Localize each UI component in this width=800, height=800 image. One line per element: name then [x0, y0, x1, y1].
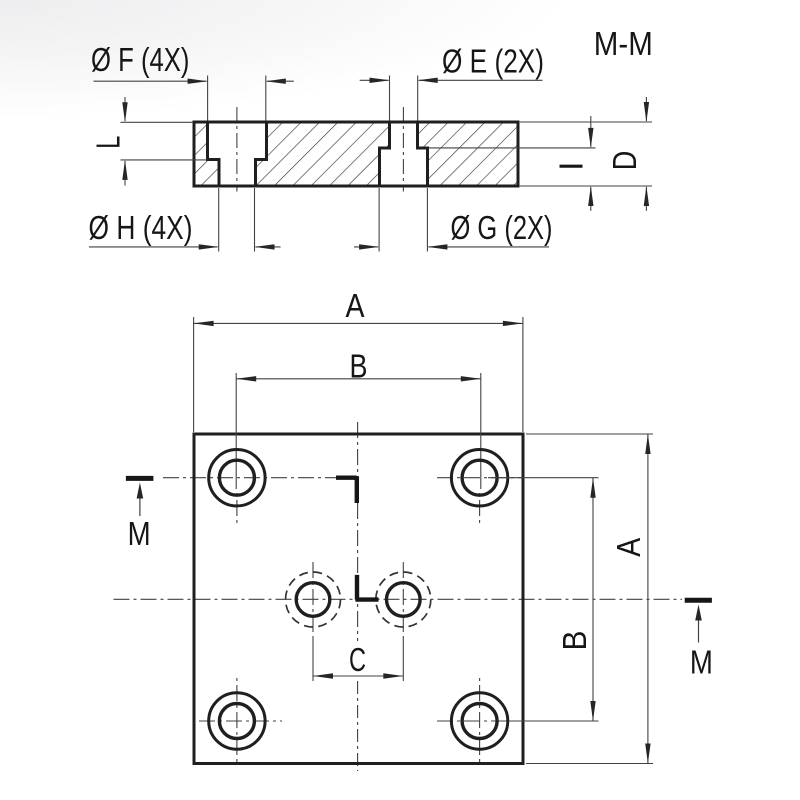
dimension B right	[556, 478, 596, 721]
extension line counterbore depth I	[429, 147, 596, 149]
wire: vertical centerlines of corner holes (lower part)	[237, 493, 480, 762]
extension lines dimension A top	[194, 317, 523, 432]
svg-text:B: B	[556, 631, 593, 651]
dimension dia H (4X)	[89, 209, 281, 250]
counterbore circle upper-right hole	[451, 450, 507, 506]
wire: centerline lower-left hole	[199, 720, 282, 722]
plate outline (top view)	[194, 434, 523, 764]
dimension A right	[610, 434, 651, 764]
counterbore circle lower-left hole	[209, 693, 265, 749]
svg-text:Ø E (2X): Ø E (2X)	[442, 43, 544, 80]
svg-text:I: I	[552, 162, 589, 171]
extension lines plate top/bottom right side	[520, 122, 652, 186]
extension lines dia E	[390, 76, 418, 121]
extension lines dimension C	[313, 637, 403, 681]
extension lines dimension B top	[236, 373, 481, 489]
svg-text:A: A	[346, 287, 365, 324]
extension line A right (top corner)	[526, 433, 653, 435]
svg-text:M: M	[128, 515, 151, 552]
dimension L	[90, 97, 128, 186]
svg-text:M: M	[690, 643, 713, 680]
extension line A right (bottom corner)	[526, 763, 653, 765]
wire: plate vertical centerline	[357, 422, 359, 641]
counterbore circle lower-right hole	[451, 693, 507, 749]
svg-text:Ø H (4X): Ø H (4X)	[89, 209, 193, 246]
dimension dia E (2X)	[360, 43, 544, 84]
svg-text:B: B	[350, 347, 368, 384]
cutting plane corner mark upper	[336, 476, 357, 503]
cutting plane corner mark lower	[355, 575, 378, 600]
extension line B right (from lower-right hole)	[509, 720, 599, 722]
wire: centerline of right counterbored hole	[402, 107, 404, 192]
svg-text:Ø G (2X): Ø G (2X)	[451, 209, 553, 246]
dimension dia G (2X)	[354, 209, 553, 250]
extension line B right (from upper-right hole)	[488, 477, 599, 479]
wire: cutting-plane centerline through upper holes (left part)	[163, 477, 336, 479]
extension lines dia F	[208, 76, 266, 121]
plate cross-section outline	[194, 122, 518, 186]
section arrow M left	[126, 478, 153, 552]
wire: middle horizontal centerline through centre holes	[114, 598, 683, 600]
right counterbored hole outline (E/G)	[380, 122, 428, 186]
centre hole right (solid + hidden counterbore)	[376, 572, 431, 627]
wire: vertical centerlines of centre holes	[313, 562, 403, 637]
dimension D	[606, 97, 649, 211]
left counterbored hole outline (F/H)	[208, 122, 267, 186]
dimension B top	[236, 347, 481, 384]
svg-text:A: A	[610, 538, 647, 557]
wire: centerline lower-right hole	[437, 720, 523, 722]
svg-text:L: L	[90, 136, 127, 149]
wire: centerline of left counterbored hole	[236, 107, 238, 192]
counterbore circle upper-left hole	[209, 450, 265, 506]
extension lines dia H	[219, 188, 255, 252]
dimension A top	[194, 287, 523, 326]
dimension dia F (4X)	[91, 41, 294, 84]
section arrow M right	[685, 600, 713, 680]
dimension C	[313, 641, 403, 679]
extension lines dimension L	[121, 122, 208, 160]
extension lines dia G	[379, 188, 427, 252]
centre hole left (solid + hidden counterbore)	[286, 572, 341, 627]
svg-text:M-M: M-M	[594, 25, 653, 62]
hatching of plate cross-section	[194, 122, 518, 186]
svg-text:C: C	[349, 641, 366, 678]
svg-text:Ø F (4X): Ø F (4X)	[91, 41, 190, 78]
dimension I	[552, 116, 593, 211]
svg-text:D: D	[606, 151, 643, 171]
wire: centerline through upper right hole	[437, 477, 524, 479]
